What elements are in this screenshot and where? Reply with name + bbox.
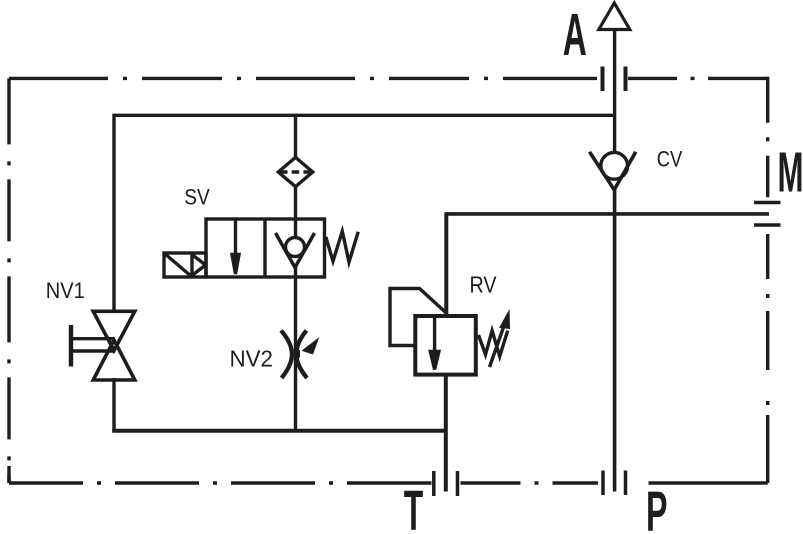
wire: A port line from arrow to check valve CV — [613, 30, 616, 154]
SV return spring — [326, 231, 358, 262]
wire: inner top rail from left branch to A line — [114, 114, 615, 117]
filter F1 dashed element — [280, 170, 311, 174]
enclosure boundary top edge (dash-dot) — [9, 77, 768, 80]
port A boundary ticks — [603, 67, 626, 92]
wire: filter to SV valve — [294, 187, 297, 238]
wire: RV bottom to T port — [444, 375, 448, 492]
svg-text:SV: SV — [184, 184, 210, 209]
filter F1 (diamond) — [278, 157, 312, 186]
svg-text:NV2: NV2 — [230, 346, 274, 372]
svg-text:P: P — [646, 480, 668, 534]
flow restrictor NV2 adjust arrow — [302, 337, 320, 355]
RV flow arrow — [430, 316, 439, 370]
port P boundary ticks — [603, 471, 626, 496]
enclosure boundary left edge (dash-dot) — [7, 78, 10, 483]
svg-text:CV: CV — [657, 146, 683, 171]
wire: RV branch down from mid rail — [444, 214, 448, 317]
enclosure boundary bottom edge (dash-dot) — [9, 481, 768, 484]
svg-text:A: A — [563, 2, 587, 68]
wire: bottom rail — [112, 429, 446, 433]
SV right position check valve — [276, 233, 315, 268]
wire: SV check seat down through NV2 to bottom rail — [294, 266, 297, 431]
RV adjustment arrow — [490, 309, 511, 367]
SV left position flow arrow — [232, 219, 239, 274]
port M boundary ticks — [754, 203, 781, 226]
wire: CV to P port — [613, 189, 617, 492]
flow restrictor NV2 center junction — [290, 350, 300, 358]
svg-text:T: T — [404, 479, 424, 534]
check valve CV — [590, 152, 636, 190]
SV solenoid actuator — [164, 253, 206, 277]
needle valve NV1 handle — [71, 325, 114, 367]
svg-text:RV: RV — [470, 272, 498, 298]
port A arrow (vent to atmosphere) — [599, 3, 630, 30]
needle valve NV1 body (bowtie) — [93, 311, 135, 380]
enclosure boundary right edge (dash-dot) — [766, 77, 769, 483]
RV spring — [479, 331, 508, 357]
RV pilot line loop — [390, 289, 446, 346]
solenoid valve SV body (two position boxes) — [206, 219, 325, 277]
wire: mid horizontal rail to M port — [445, 212, 770, 216]
svg-text:M: M — [778, 141, 803, 205]
flow restrictor NV2 arcs — [281, 331, 307, 379]
relief valve RV body — [415, 316, 476, 375]
svg-text:NV1: NV1 — [46, 278, 85, 303]
port T boundary ticks — [434, 471, 458, 496]
wire: NV1 bottom to bottom rail — [112, 378, 115, 433]
wire: middle branch from top rail to filter — [294, 115, 297, 157]
wire: left vertical down to NV1 — [112, 114, 115, 312]
